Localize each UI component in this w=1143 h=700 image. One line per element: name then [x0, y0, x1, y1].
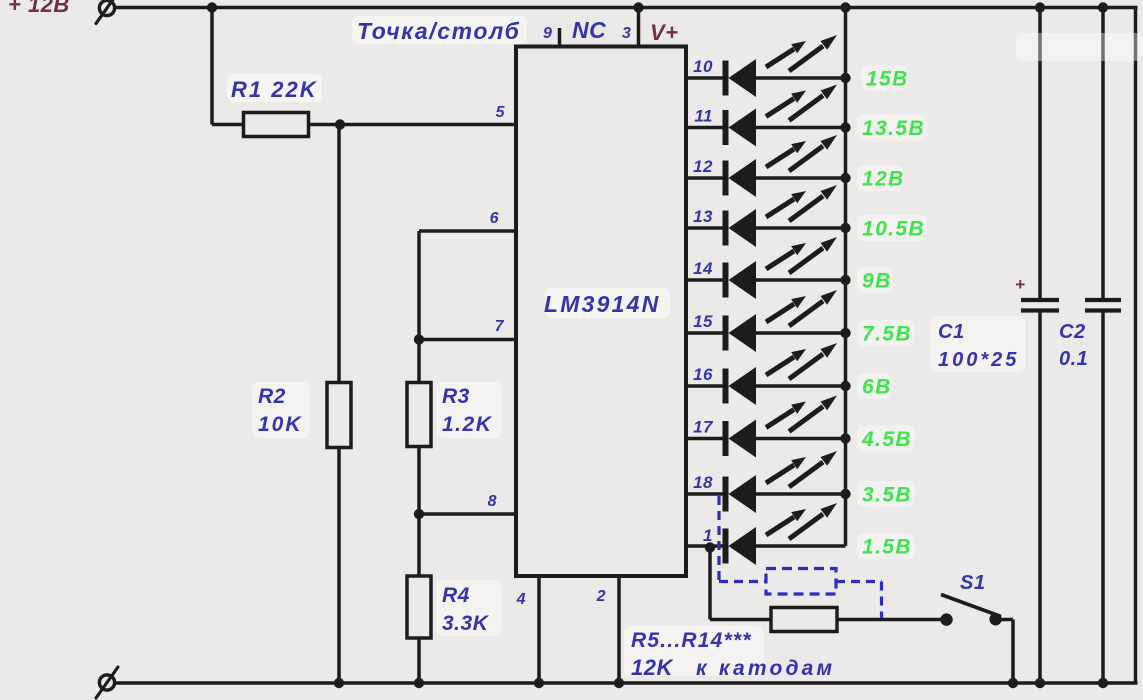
svg-text:12K: 12K [631, 655, 674, 680]
svg-text:4.5В: 4.5В [861, 428, 912, 451]
svg-text:12: 12 [693, 157, 713, 176]
svg-text:10.5В: 10.5В [862, 218, 925, 241]
svg-text:13: 13 [693, 207, 713, 226]
svg-text:17: 17 [693, 418, 714, 437]
svg-text:6В: 6В [862, 376, 892, 399]
svg-text:3.5В: 3.5В [862, 484, 912, 507]
svg-text:15В: 15В [866, 68, 909, 91]
svg-text:к катодам: к катодам [696, 657, 835, 680]
svg-text:1.2K: 1.2K [442, 413, 493, 436]
svg-text:2: 2 [596, 588, 606, 605]
svg-text:+: + [1015, 275, 1025, 294]
svg-text:13.5В: 13.5В [862, 117, 925, 140]
svg-text:C1: C1 [938, 321, 965, 343]
svg-text:9В: 9В [862, 270, 892, 293]
svg-text:S1: S1 [960, 572, 985, 594]
svg-text:8: 8 [488, 493, 497, 510]
svg-text:9: 9 [543, 25, 552, 42]
svg-text:Точка/столб: Точка/столб [357, 18, 520, 44]
svg-text:1.5В: 1.5В [862, 536, 912, 559]
svg-text:R2: R2 [258, 385, 286, 408]
svg-text:R5...R14***: R5...R14*** [631, 629, 752, 652]
svg-text:100*25: 100*25 [938, 349, 1019, 371]
svg-text:4: 4 [516, 591, 526, 608]
svg-text:+ 12В: + 12В [8, 0, 70, 17]
svg-text:6: 6 [490, 210, 499, 227]
svg-text:7.5В: 7.5В [862, 323, 912, 346]
svg-text:R1 22K: R1 22K [231, 77, 318, 102]
svg-text:R3: R3 [442, 385, 470, 408]
svg-text:R4: R4 [442, 584, 470, 607]
svg-text:5: 5 [496, 104, 506, 121]
svg-text:3.3K: 3.3K [442, 612, 490, 635]
svg-text:11: 11 [694, 107, 713, 126]
svg-text:16: 16 [693, 365, 713, 384]
svg-text:0.1: 0.1 [1059, 348, 1088, 370]
svg-text:C2: C2 [1059, 321, 1086, 343]
svg-text:NC: NC [572, 17, 606, 43]
svg-text:7: 7 [495, 318, 505, 335]
svg-text:1: 1 [703, 526, 713, 545]
svg-text:3: 3 [622, 25, 631, 42]
svg-text:10K: 10K [258, 413, 303, 436]
svg-text:18: 18 [693, 473, 713, 492]
svg-text:V+: V+ [650, 20, 679, 45]
svg-text:12В: 12В [862, 168, 905, 191]
svg-text:LM3914N: LM3914N [544, 291, 660, 317]
svg-text:15: 15 [693, 312, 713, 331]
svg-text:10: 10 [693, 57, 713, 76]
svg-text:14: 14 [693, 259, 713, 278]
